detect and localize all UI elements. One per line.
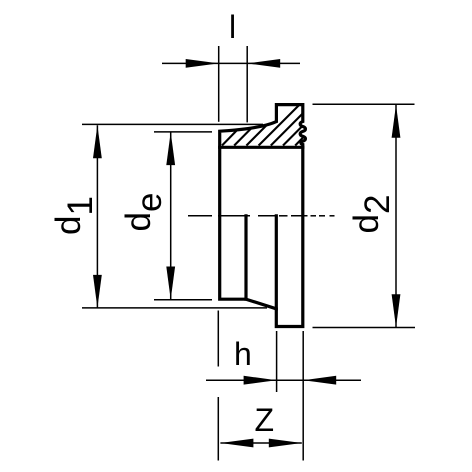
wire de dimension line (170, 132, 172, 299)
wire d1 extension top (82, 123, 263, 125)
wire Z extension left upper (217, 311, 219, 367)
wire inner bore line right (275, 216, 278, 309)
wire d2 extension top (313, 103, 415, 105)
svg-text:d1: d1 (49, 196, 100, 235)
wire h extension left (276, 331, 278, 392)
l arrow right (247, 59, 280, 68)
d1 arrow up (93, 125, 102, 158)
dimension de (154, 132, 212, 300)
d1 arrow down (93, 275, 102, 308)
svg-text:Z: Z (255, 402, 275, 438)
svg-text:h: h (234, 336, 252, 372)
l arrow left (186, 59, 219, 68)
wire l extension right (246, 46, 248, 122)
h arrow left-pointing (303, 376, 336, 385)
wire d1 extension bottom (82, 307, 267, 309)
centerline (dash-dot axis) (188, 215, 335, 217)
d2 arrow up (392, 105, 401, 138)
wire l extension left (218, 46, 220, 122)
dimension Z (218, 311, 301, 461)
wire inner bore line left (244, 216, 247, 299)
dimension d2 (313, 104, 416, 327)
Z arrow left-pointing (220, 439, 253, 448)
dimension d1 (82, 124, 267, 308)
h arrow right-pointing (244, 376, 277, 385)
wire d1 dimension line (96, 125, 98, 308)
svg-text:de: de (119, 193, 169, 232)
de arrow down (166, 267, 175, 300)
wire de extension bottom (154, 299, 212, 301)
dimension h (206, 331, 361, 461)
svg-text:l: l (229, 9, 236, 45)
wire outer profile with serrated face (220, 105, 306, 327)
wire d2 extension bottom (313, 327, 416, 329)
wire l dimension line (162, 62, 300, 64)
wire d2 dimension line (395, 105, 397, 327)
hatching of section (222, 105, 303, 146)
wire de extension top (154, 131, 212, 133)
wire Z dimension line (220, 442, 301, 444)
dimension l (162, 46, 300, 122)
Z arrow right-pointing (269, 439, 302, 448)
d2 arrow down (392, 294, 401, 327)
flange adaptor body outline (half section) (220, 105, 306, 327)
svg-text:d2: d2 (347, 195, 397, 234)
wire h/Z extension right (302, 331, 304, 461)
wire h dimension line (206, 379, 361, 381)
wire Z extension left lower (217, 397, 219, 461)
de arrow up (166, 132, 175, 165)
wire flange plate bottom (220, 146, 303, 149)
